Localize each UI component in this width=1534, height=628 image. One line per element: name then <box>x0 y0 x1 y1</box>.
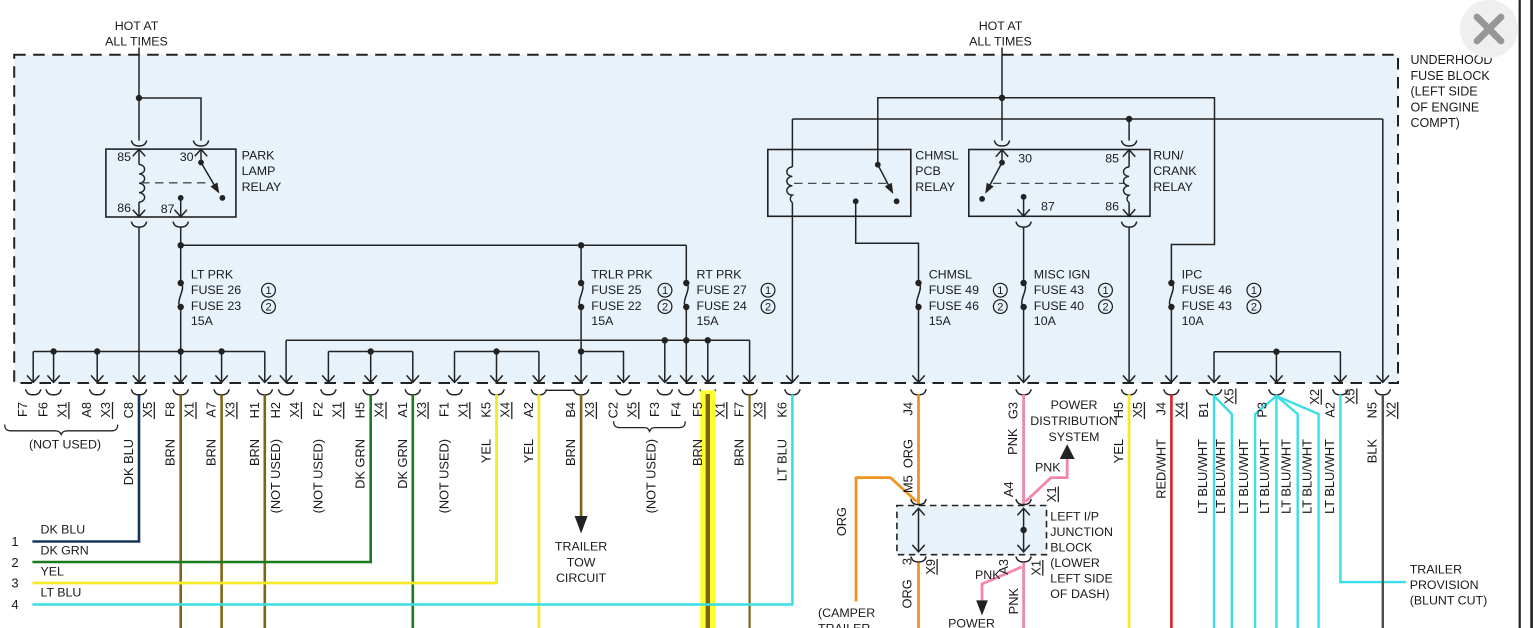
svg-text:15A: 15A <box>929 314 952 328</box>
wire: drop to pin F1 <box>448 352 460 383</box>
svg-text:CRANK: CRANK <box>1153 164 1197 178</box>
wire: drop to pin F2 <box>322 352 334 383</box>
wire: BRN from pin H1 to bottom <box>263 394 266 628</box>
wire: YEL from pin K5 to row 3 <box>32 394 496 583</box>
wire: drop to pin F7 (right end of distribution line) <box>743 340 755 382</box>
svg-text:LT BLU/WHT: LT BLU/WHT <box>1195 439 1210 514</box>
svg-text:FUSE 43: FUSE 43 <box>1034 283 1084 297</box>
connector cup: junction block bottom pin 3 <box>911 557 926 563</box>
wire: drop to pin A7 <box>215 352 227 383</box>
svg-text:RT PRK: RT PRK <box>697 268 743 282</box>
svg-text:FUSE 26: FUSE 26 <box>191 283 241 297</box>
svg-text:BLOCK: BLOCK <box>1050 541 1093 555</box>
svg-text:BRN: BRN <box>163 439 178 466</box>
wire: LT PRK fuse output down to bus <box>180 307 182 352</box>
wire: IPC fuse output to pin J4 (RED/WHT) <box>1165 307 1177 382</box>
svg-text:CIRCUIT: CIRCUIT <box>556 571 607 585</box>
pin 87 contact and arrow (down) of park lamp relay <box>175 195 187 217</box>
svg-text:LT PRK: LT PRK <box>191 268 234 282</box>
fuse: CHMSL FUSE 49 / FUSE 46 15A <box>915 268 1007 329</box>
node: junction TRLR fuse to C2 branch <box>578 348 584 354</box>
svg-text:F6: F6 <box>36 402 51 417</box>
svg-text:A1: A1 <box>395 402 410 418</box>
relay K3: RUN/CRANK RELAY box <box>969 150 1150 217</box>
node: bus junction A8 <box>94 348 100 354</box>
label: RUN/CRANK RELAY <box>1153 148 1197 194</box>
relay actuation dashed line (RUN/CRANK relay) <box>993 182 1125 184</box>
connector label X3 at pin 581.1 <box>582 402 597 419</box>
connector label X4 at pin 496.5 <box>498 402 513 419</box>
connector label X9 below junction block <box>923 559 938 575</box>
svg-text:K5: K5 <box>479 402 494 418</box>
svg-text:X2: X2 <box>1307 389 1322 405</box>
svg-text:LT BLU/WHT: LT BLU/WHT <box>1300 439 1315 514</box>
svg-text:YEL: YEL <box>521 439 536 463</box>
svg-text:H5: H5 <box>353 402 368 418</box>
svg-text:H1: H1 <box>247 402 262 418</box>
svg-text:X1: X1 <box>1029 560 1044 576</box>
svg-text:LEFT I/P: LEFT I/P <box>1050 510 1099 524</box>
svg-text:FUSE BLOCK: FUSE BLOCK <box>1411 69 1491 83</box>
wire: branch left to CHMSL relay switch <box>878 98 1002 165</box>
junction block internal path (ORG) <box>912 508 924 552</box>
connector label X5 at pin 139 <box>140 402 155 419</box>
connector cup below relay pin 86 <box>131 222 146 228</box>
wire: PNK branch to power distribution system <box>1026 459 1068 502</box>
svg-text:F5: F5 <box>690 402 705 417</box>
connector label X4 at pin 286.1 <box>287 402 302 419</box>
connector cup: RUN/CRANK pin 85 <box>1121 141 1136 147</box>
svg-text:X1: X1 <box>456 402 471 418</box>
label: (CAMPER TRAILER destination <box>818 606 875 628</box>
svg-text:10A: 10A <box>1182 314 1205 328</box>
svg-text:POWER: POWER <box>948 617 995 628</box>
svg-text:RED/WHT: RED/WHT <box>1153 439 1168 499</box>
bus: splice bus B1-P3-A2 <box>1214 351 1340 353</box>
relay K2: CHMSL PCB RELAY box <box>768 150 911 217</box>
svg-text:YEL: YEL <box>1111 439 1126 463</box>
svg-text:RELAY: RELAY <box>1153 180 1193 194</box>
svg-text:CHMSL: CHMSL <box>915 148 958 162</box>
svg-text:4: 4 <box>11 597 18 612</box>
wire: BRN from pin F8 to bottom <box>179 394 182 628</box>
connector shell link between pins A2 and B4 <box>546 389 573 391</box>
svg-text:YEL: YEL <box>41 565 65 579</box>
svg-text:JUNCTION: JUNCTION <box>1050 525 1113 539</box>
wire: YEL from pin A2 to bottom <box>538 394 541 628</box>
svg-text:DK BLU: DK BLU <box>41 523 86 537</box>
svg-text:B4: B4 <box>563 402 578 418</box>
fuse: IPC FUSE 46 / FUSE 43 10A <box>1168 268 1261 329</box>
svg-text:F7: F7 <box>15 402 30 417</box>
connector cup: junction block top A4 <box>1016 499 1031 505</box>
connector label X3 at pin 412.8 <box>414 402 429 419</box>
svg-text:HOT AT: HOT AT <box>979 19 1023 33</box>
node: junction on right hot feed <box>999 95 1005 101</box>
svg-text:H5: H5 <box>1111 402 1126 418</box>
svg-text:FUSE 40: FUSE 40 <box>1034 299 1084 313</box>
wire: drop from junction to RUN/CRANK pin 85 <box>1128 119 1130 141</box>
svg-text:CHMSL: CHMSL <box>929 268 972 282</box>
wire: LT BLU from pin K6 to row 4 <box>32 394 792 604</box>
svg-text:C8: C8 <box>121 402 136 418</box>
wire: MISC IGN fuse output to pin G3 (PNK) <box>1017 307 1029 382</box>
pin 86 arrow (down) of RUN/CRANK relay <box>1123 203 1135 217</box>
svg-text:DK GRN: DK GRN <box>395 439 410 489</box>
wire: relay pin 87 down to fuse junction <box>180 228 182 283</box>
svg-text:X1: X1 <box>182 402 197 418</box>
svg-text:15A: 15A <box>697 314 720 328</box>
svg-text:TRAILER: TRAILER <box>1410 563 1462 577</box>
svg-text:(LEFT SIDE: (LEFT SIDE <box>1411 85 1478 99</box>
wire: BRN from pin B4 to trailer tow circuit <box>580 394 583 516</box>
wire: ORG from junction block pin 3 to bottom <box>917 563 920 628</box>
svg-text:FUSE 49: FUSE 49 <box>929 283 979 297</box>
svg-text:1: 1 <box>765 285 771 297</box>
svg-text:15A: 15A <box>591 314 614 328</box>
label: POWER DISTRIBUTION SYSTEM <box>1030 398 1117 444</box>
svg-text:ALL TIMES: ALL TIMES <box>105 35 168 49</box>
svg-text:PNK: PNK <box>1005 428 1020 455</box>
wire: drop to pin A1 <box>407 352 419 383</box>
svg-text:X4: X4 <box>1172 402 1187 418</box>
node: junction P3 <box>1273 349 1279 355</box>
connector label X1 below junction block <box>1029 560 1044 576</box>
svg-text:P3: P3 <box>1254 402 1269 418</box>
svg-text:(BLUNT CUT): (BLUNT CUT) <box>1410 594 1488 608</box>
svg-text:COMPT): COMPT) <box>1411 116 1460 130</box>
svg-text:J4: J4 <box>901 402 916 416</box>
wire: LT PRK fuse feed arrow at border F8 <box>175 352 187 383</box>
svg-text:C2: C2 <box>606 402 621 418</box>
wire: RUN/CRANK pin 87 to MISC IGN fuse <box>1023 228 1025 283</box>
svg-text:10A: 10A <box>1034 314 1057 328</box>
close button <box>1460 0 1518 58</box>
wire: horizontal feed from pin 87 to TRLR PRK and RT PRK fuses <box>181 244 687 246</box>
svg-text:PCB: PCB <box>915 164 940 178</box>
svg-text:85: 85 <box>1105 152 1119 166</box>
connector label X5 at pin 1129.1 <box>1130 402 1145 419</box>
pin arrow at border: C8 <box>133 375 145 382</box>
svg-text:PARK: PARK <box>242 148 276 162</box>
left I/P junction block (dashed box) <box>897 506 1047 555</box>
bus: splice bus F2-H5-A1 <box>328 351 412 353</box>
svg-text:K6: K6 <box>774 402 789 418</box>
switch output contact of CHMSL relay <box>853 198 859 204</box>
connector cup below RUN/CRANK pin 86 <box>1121 222 1136 228</box>
grouping brace: F7-X3 pins (NOT USED) <box>5 425 118 435</box>
connector label X1 at junction block top <box>1044 487 1059 503</box>
bus: LT PRK splice bus to pins F7 F6 A8 A7 H1 <box>33 351 265 353</box>
wire: drop to pin H2 <box>280 340 292 382</box>
svg-text:DK GRN: DK GRN <box>41 544 89 558</box>
grouping brace: C2-F4 pins (NOT USED) <box>614 421 686 431</box>
pin 30 arrow (up) of RUN/CRANK relay <box>996 150 1008 163</box>
svg-text:X3: X3 <box>223 402 238 418</box>
svg-text:DK GRN: DK GRN <box>353 439 368 489</box>
svg-text:LT BLU/WHT: LT BLU/WHT <box>1213 439 1228 514</box>
wire: drop into CHMSL relay coil <box>791 119 793 167</box>
svg-text:J4: J4 <box>1153 402 1168 416</box>
svg-text:ALL TIMES: ALL TIMES <box>969 35 1032 49</box>
wire: BRN (highlighted) from pin F5 to bottom <box>706 394 710 628</box>
underhood fuse block outline (light blue panel with dashed border) <box>14 55 1398 383</box>
svg-text:N5: N5 <box>1364 402 1379 418</box>
svg-text:X1: X1 <box>329 402 344 418</box>
connector label X1 at pin 180.7 <box>182 402 197 419</box>
svg-text:X5: X5 <box>1343 389 1358 405</box>
svg-text:G3: G3 <box>1006 402 1021 419</box>
fuse: MISC IGN FUSE 43 / FUSE 40 10A <box>1020 268 1112 329</box>
wire: drop to pin A2 <box>1334 352 1346 383</box>
svg-text:PNK: PNK <box>1006 588 1021 615</box>
wire: drop to pin P3 <box>1270 352 1282 383</box>
svg-text:PNK: PNK <box>1035 461 1061 475</box>
wire: DK BLU from pin C8 to row 1 <box>32 394 139 541</box>
connector cup: RUN/CRANK pin 30 <box>994 141 1009 147</box>
svg-text:1: 1 <box>662 285 668 297</box>
svg-text:F4: F4 <box>668 402 683 417</box>
svg-text:(LOWER: (LOWER <box>1050 556 1100 570</box>
svg-text:86: 86 <box>1105 200 1119 214</box>
svg-text:BRN: BRN <box>563 439 578 466</box>
svg-text:LAMP: LAMP <box>242 164 276 178</box>
svg-text:X5: X5 <box>625 402 640 418</box>
svg-text:FUSE 27: FUSE 27 <box>697 283 747 297</box>
svg-text:IPC: IPC <box>1182 268 1203 282</box>
svg-text:1: 1 <box>1102 285 1108 297</box>
label: CHMSL PCB RELAY <box>915 148 958 194</box>
svg-text:X3: X3 <box>582 402 597 418</box>
wire: BRN from pin A7 to bottom <box>220 394 223 628</box>
node: bus junction F6 <box>50 348 56 354</box>
wire: N5 feed from hot line down to pin N5 <box>1377 119 1389 382</box>
svg-text:1: 1 <box>997 285 1003 297</box>
node: bus junction fuse feed <box>178 348 184 354</box>
node: junction on left hot feed <box>136 95 142 101</box>
wire: relay pin 86 down to connector C8 (crosses bus, no junction) <box>138 228 140 383</box>
svg-text:TOW: TOW <box>567 555 596 569</box>
svg-text:BLK: BLK <box>1364 439 1379 464</box>
wire: drop to pin A8 <box>91 352 103 383</box>
connector label X5 at pin B1 <box>1222 389 1237 405</box>
wire: left hot feed down from HOT AT ALL TIMES <box>138 48 140 141</box>
svg-text:(CAMPER: (CAMPER <box>818 606 875 620</box>
wire: BLK from pin N5 to bottom <box>1382 394 1384 628</box>
connector cup: park lamp relay pin 85 <box>131 141 146 147</box>
node: junction F5 <box>705 337 711 343</box>
label: TRAILER PROVISION (BLUNT CUT) <box>1410 563 1488 608</box>
svg-text:A3: A3 <box>996 559 1011 575</box>
connector cups at fuse block border <box>26 389 1391 395</box>
svg-text:TRAILER: TRAILER <box>555 540 607 554</box>
svg-text:X1: X1 <box>1044 487 1059 503</box>
svg-text:FUSE 46: FUSE 46 <box>929 299 979 313</box>
connector label X2 at pin 1382.4 <box>1383 402 1398 419</box>
pin 85 arrow (up) of RUN/CRANK relay <box>1123 150 1135 167</box>
switch arm of CHMSL relay <box>875 162 900 204</box>
connector label X1 at pin 454.5 <box>456 402 471 419</box>
wire: PNK from pin G3 to left I/P junction block <box>1022 394 1025 505</box>
svg-text:A4: A4 <box>1001 482 1016 498</box>
wire: RED/WHT from pin J4 to bottom <box>1170 394 1173 628</box>
svg-text:(NOT USED): (NOT USED) <box>437 439 452 513</box>
wire: drop to pin B1 <box>1208 352 1220 383</box>
svg-text:F1: F1 <box>437 402 452 417</box>
svg-text:FUSE 25: FUSE 25 <box>591 283 641 297</box>
svg-text:OF ENGINE: OF ENGINE <box>1411 100 1480 114</box>
wire: drop to pin H1 <box>259 352 271 383</box>
node: junction F3 <box>662 337 668 343</box>
svg-text:RELAY: RELAY <box>915 180 955 194</box>
wire: DK GRN from pin A1 to bottom <box>411 394 414 628</box>
node: bus junction A7 <box>218 348 224 354</box>
svg-text:(NOT USED): (NOT USED) <box>310 439 325 513</box>
wire: yellow highlight on BRN wire at pin F5 <box>700 391 715 628</box>
svg-text:BRN: BRN <box>247 439 262 466</box>
node: junction at pin 87 feed <box>178 242 184 248</box>
svg-text:85: 85 <box>117 150 131 164</box>
destination arrow: power distribution (down) <box>976 600 988 615</box>
wire: CHMSL coil down to pin K6 <box>791 203 793 383</box>
wire: drop to RT PRK fuse <box>685 245 687 283</box>
destination arrow: trailer tow circuit <box>575 516 588 534</box>
wire: branch right to IPC fuse <box>1002 98 1215 283</box>
svg-text:F3: F3 <box>647 402 662 417</box>
svg-text:LT BLU/WHT: LT BLU/WHT <box>1279 439 1294 514</box>
label: UNDERHOOD FUSE BLOCK (LEFT SIDE OF ENGINE COMPT) <box>1411 53 1493 130</box>
svg-text:2: 2 <box>1102 302 1108 314</box>
wire: hot-at-all-times line to CHMSL coil, RUN/CRANK 85 and N5 feed <box>792 118 1382 120</box>
label: PARK LAMP RELAY <box>242 148 282 194</box>
connector label X1 at pin 53.6 <box>55 402 70 419</box>
connector label X4 at pin 370.7 <box>372 402 387 419</box>
svg-text:X3: X3 <box>751 402 766 418</box>
wire: CHMSL switch output to CHMSL fuse <box>856 201 919 283</box>
svg-text:3: 3 <box>11 576 18 591</box>
svg-text:FUSE 24: FUSE 24 <box>697 299 747 313</box>
svg-text:X3: X3 <box>98 402 113 418</box>
connector label X5 at pin 623.5 <box>625 402 640 419</box>
svg-text:HOT AT: HOT AT <box>115 19 159 33</box>
fuse: TRLR PRK FUSE 25 / FUSE 22 15A <box>578 268 672 329</box>
wire: right hot feed down to RUN/CRANK pin 30 <box>1001 48 1003 141</box>
wire: LT BLU/WHT pair from pin B1 <box>1214 394 1232 628</box>
connector cup: junction block bottom A3 <box>1016 557 1031 563</box>
svg-text:LT BLU/WHT: LT BLU/WHT <box>1322 439 1337 514</box>
fuse: RT PRK FUSE 27 / FUSE 24 15A <box>683 268 775 329</box>
switch arm of park lamp relay (30 to 87) <box>198 160 225 201</box>
svg-text:X5: X5 <box>140 402 155 418</box>
svg-text:2: 2 <box>1251 302 1257 314</box>
connector cup below relay pin 87 <box>173 222 188 228</box>
relay K1: PARK LAMP RELAY box <box>106 149 236 217</box>
wire: PNK branch to lower power distribution system <box>982 567 1022 600</box>
svg-text:1: 1 <box>11 534 18 549</box>
svg-text:M5 ORG: M5 ORG <box>901 439 916 493</box>
node: junction K5 <box>493 348 499 354</box>
svg-text:DK BLU: DK BLU <box>121 439 136 485</box>
svg-text:30: 30 <box>180 150 194 164</box>
coil of park lamp relay (pins 85-86) <box>139 165 145 203</box>
pin arrow at border: K6 <box>786 375 798 382</box>
pin 86 arrow (down) of park lamp relay <box>133 202 145 217</box>
svg-text:B1: B1 <box>1196 402 1211 418</box>
svg-text:X2: X2 <box>1383 402 1398 418</box>
svg-text:BRN: BRN <box>732 439 747 466</box>
svg-text:A8: A8 <box>79 402 94 418</box>
wire: PNK from junction block pin A3 to bottom <box>1022 563 1025 628</box>
svg-text:FUSE 46: FUSE 46 <box>1182 283 1232 297</box>
svg-text:1: 1 <box>265 285 271 297</box>
wire: drop to pin F3 <box>659 340 671 382</box>
svg-text:X3: X3 <box>414 402 429 418</box>
wire: BRN from pin F7 to bottom <box>748 394 750 628</box>
svg-text:OF DASH): OF DASH) <box>1050 587 1109 601</box>
node: junction to TRLR PRK fuse <box>578 242 584 248</box>
svg-text:X4: X4 <box>498 402 513 418</box>
svg-text:2: 2 <box>765 302 771 314</box>
svg-text:(NOT USED): (NOT USED) <box>29 437 101 451</box>
junction block internal path (PNK) with tap <box>1017 508 1029 552</box>
svg-text:RUN/: RUN/ <box>1153 148 1184 162</box>
wire: RUN/CRANK pin 86 down to pin H5 (YEL) <box>1123 228 1135 383</box>
svg-text:POWER: POWER <box>1051 398 1098 412</box>
wire: TRLR PRK fuse output to pin B4 (crosses RT PRK bus) <box>575 307 587 382</box>
node: junction RUN/CRANK pin 85 <box>1126 116 1132 122</box>
node: RT PRK junction on distribution line <box>683 337 689 343</box>
svg-text:FUSE 23: FUSE 23 <box>191 299 241 313</box>
wire: ORG branch to camper trailer harness <box>856 478 917 602</box>
connector label X5 at pin A2 <box>1343 389 1358 405</box>
connector label X3 at pin 97.2 <box>98 402 113 419</box>
svg-text:LT BLU: LT BLU <box>41 586 82 600</box>
svg-text:F8: F8 <box>163 402 178 417</box>
svg-text:X1: X1 <box>55 402 70 418</box>
svg-text:86: 86 <box>117 201 131 215</box>
label: LEFT I/P JUNCTION BLOCK (LOWER LEFT SIDE OF DASH) <box>1050 510 1113 602</box>
connector cup: park lamp relay pin 30 <box>193 141 208 147</box>
svg-text:DISTRIBUTION: DISTRIBUTION <box>1030 414 1117 428</box>
wire: DK GRN from pin H5 to row 2 <box>32 394 370 562</box>
bus: RT PRK distribution line to H2 F3 F5 F7 <box>286 339 749 341</box>
label: TRAILER TOW CIRCUIT <box>555 540 607 586</box>
switch arm of RUN/CRANK relay (30 to 87) <box>979 160 1005 202</box>
connector label X3 at pin 221.6 <box>223 402 238 419</box>
pin 30 arrow (up) of park lamp relay <box>195 149 207 162</box>
label: HOT AT ALL TIMES (right) <box>969 19 1032 48</box>
window frame edge (right) <box>1520 0 1532 628</box>
svg-text:X4: X4 <box>372 402 387 418</box>
connector cup: junction block top M5 <box>911 499 926 505</box>
svg-text:MISC IGN: MISC IGN <box>1034 268 1090 282</box>
svg-text:RELAY: RELAY <box>242 180 282 194</box>
connector label X4 at pin 1171.4 <box>1172 402 1187 419</box>
svg-text:LT BLU: LT BLU <box>774 439 789 481</box>
svg-text:LT BLU/WHT: LT BLU/WHT <box>1257 439 1272 514</box>
bus: splice bus F1-K5-A2 <box>455 351 539 353</box>
wire: drop to pin F7 <box>27 352 39 383</box>
svg-text:FUSE 22: FUSE 22 <box>591 299 641 313</box>
wire: ORG from pin J4 to left I/P junction block <box>917 394 920 505</box>
wire: branch from junction to relay pin 30 <box>139 98 201 141</box>
svg-text:H2: H2 <box>268 402 283 418</box>
coil of RUN/CRANK relay (pins 85-86) <box>1124 167 1130 202</box>
wire: drop to TRLR PRK fuse <box>580 245 582 283</box>
svg-text:TRAILER: TRAILER <box>818 622 870 628</box>
svg-text:FUSE 43: FUSE 43 <box>1182 299 1232 313</box>
svg-text:X5: X5 <box>1222 389 1237 405</box>
